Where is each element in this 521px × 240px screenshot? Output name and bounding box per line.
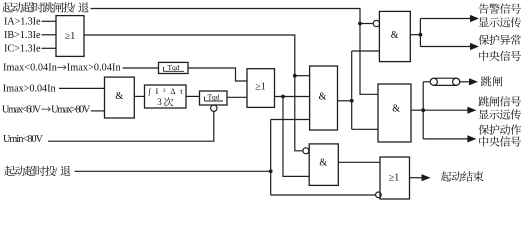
wire A1 output into timer T2 (186, 95, 200, 97)
svg-text:&: & (115, 91, 123, 102)
svg-text:∫I²Δt: ∫I²Δt (148, 87, 184, 96)
wire U2 output to node (338, 100, 352, 102)
wire U3 output to branch node (410, 34, 420, 36)
wire into timer T1 (123, 67, 159, 69)
wire IA input (42, 20, 57, 22)
svg-text:≥1: ≥1 (255, 82, 266, 93)
svg-text:IB>1.3Ie: IB>1.3Ie (4, 30, 41, 41)
node protection acted label line2 (479, 136, 488, 146)
and-gate U3 box (alarm) (379, 11, 410, 61)
junction dot enable2 net at (270.7,171.3) (269, 169, 273, 173)
arrow from contact K1 to trip output (460, 81, 470, 83)
arrow to trip-signal output (423, 109, 468, 111)
svg-text:&: & (392, 104, 400, 115)
junction dot U5-output net at (283,96.5) (281, 95, 285, 99)
wire IB input (42, 34, 57, 36)
svg-text:IC>1.3Ie: IC>1.3Ie (4, 44, 41, 55)
or-gate U8 (>=1) box (380, 157, 410, 199)
wire branch into AND U2 pin1 (295, 75, 310, 77)
arrow to protection-acted output (429, 138, 468, 140)
svg-text:/: / (73, 3, 76, 14)
svg-text:Imax>0.04In: Imax>0.04In (67, 63, 121, 74)
svg-text:&: & (319, 91, 327, 102)
svg-text:/: / (55, 167, 58, 178)
svg-text:&: & (319, 158, 327, 169)
wire enable2 vertical: up into AND U2 pin3, down to OR U8 bubble (271, 120, 376, 196)
trip output contact K1 (two circles) (430, 78, 437, 85)
inverter bubble on AND U6 pin1 (303, 148, 309, 154)
wire T2 output into OR U5 pin2 (227, 96, 247, 98)
wire IC input (42, 47, 57, 49)
inverter bubble on OR U8 pin2 (376, 192, 382, 198)
svg-text:3: 3 (157, 97, 162, 107)
wire start-overtime-trip enable net: top run, corner down at x360, into AND U4 pin1 (91, 9, 379, 95)
wire U1 output: right, corner down at x294.8, to bubble of AND U6 (84, 35, 303, 151)
wire start-overtime enable net (75, 170, 271, 172)
svg-text:Tqd: Tqd (207, 93, 219, 102)
node protection abnormal label line1 (478, 35, 489, 45)
and-gate U7 box (105, 77, 135, 118)
svg-text:Umin<80V: Umin<80V (3, 134, 44, 145)
wire branch down into AND U6 pin2 (283, 97, 309, 177)
node protection acted label line1 (478, 125, 489, 135)
node start-end label (441, 171, 452, 181)
node trip signal label line2 (479, 110, 489, 120)
integrator A1 box (I^2 dt, 3 times) (145, 85, 187, 108)
node alarm signal label line2 (479, 17, 489, 27)
or-gate U5 (>=1) box (247, 69, 275, 108)
svg-text:Umax>80V: Umax>80V (51, 105, 91, 116)
or-gate U1 (>=1) box (56, 16, 84, 57)
svg-text:Tqd: Tqd (167, 63, 179, 72)
node trip signal label line1 (478, 96, 489, 106)
node alarm signal label line1 (479, 4, 489, 14)
wire U5 output into AND U2 pin2 (275, 96, 310, 98)
and-gate U2 box (main) (310, 66, 338, 130)
and-gate U6 box (start-end) (309, 144, 338, 186)
wire into trip contact K1 (423, 81, 430, 83)
svg-text:&: & (391, 30, 399, 41)
svg-text:≥1: ≥1 (65, 31, 76, 42)
wire branch to inverter bubble of AND U3 (360, 23, 373, 25)
junction dot U1-output net at (294.8,75.7) (293, 74, 297, 78)
wire U4 output to branch node (411, 109, 423, 111)
wire down-branch to protection-acted output (423, 138, 430, 140)
svg-text:Umax<60V: Umax<60V (2, 105, 42, 116)
arrow to protection-abnormal output (420, 46, 470, 48)
junction dot U4-output at (423.2,110.2) (421, 108, 425, 112)
node QDCS-TQ label (start-overtime enable) (4, 166, 15, 176)
wire Imax input into AND U7 (59, 87, 105, 89)
junction dot on enable net at (360,23.5) (358, 22, 362, 26)
wire T1 output: right, corner down, into OR U5 pin1 (188, 68, 247, 81)
svg-text:Imax>0.04In: Imax>0.04In (3, 84, 56, 95)
svg-text:≥1: ≥1 (389, 173, 400, 184)
wire U7 output into integrator A1 (134, 95, 144, 97)
wire Umax input into AND U7 (91, 110, 105, 112)
wire Umin net: from bubble down, left run to label (48, 111, 214, 141)
node QDCSTZTQ label (start-overtime-trip enable) (2, 2, 13, 12)
timer T2 (Tqd) box (200, 91, 228, 105)
wire U2-output vertical: up into AND U3 pin2, down into AND U4 pin2 (352, 51, 380, 129)
svg-text:IA>1.3Ie: IA>1.3Ie (4, 17, 41, 28)
wire U4-output vertical (422, 82, 424, 139)
inverter bubble on AND U3 pin1 (373, 20, 379, 26)
arrow U8 output to start-end (410, 177, 423, 179)
wire U3-output split vertical (419, 19, 421, 47)
timer T1 (Tqd) box (159, 62, 189, 73)
and-gate U4 box (trip) (378, 84, 411, 142)
node protection abnormal label line2 (479, 51, 488, 61)
wire U6 output into OR U8 pin1 (338, 161, 380, 163)
inverter bubble on T2 reset input (bottom) (211, 105, 217, 111)
svg-text:Imax<0.04In: Imax<0.04In (3, 63, 57, 74)
junction dot U3-output at (420.4,34.7) (419, 33, 423, 37)
junction dot U2-output net at (351.7,100.8) (350, 99, 354, 103)
arrow to alarm-signal output (420, 18, 470, 20)
node trip label (481, 76, 492, 86)
